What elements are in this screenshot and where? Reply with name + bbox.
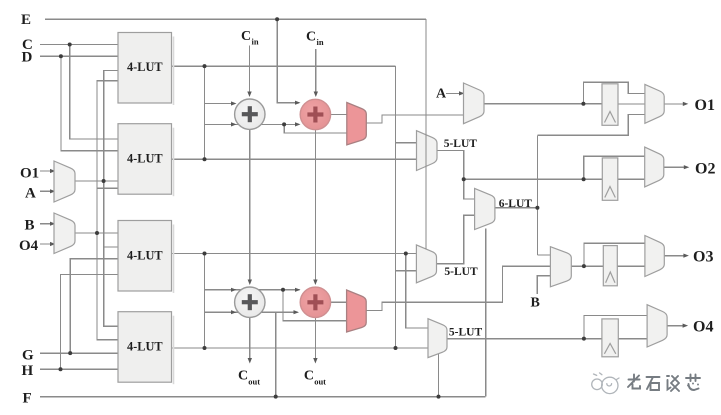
wire Cout2 from adder AD4 [314, 318, 316, 361]
arrow Cin1 down into adder AD1 [247, 92, 251, 98]
svg-text:O4: O4 [693, 319, 713, 336]
junction LUT4 output [203, 346, 207, 350]
wire F riser to 5-LUT mux M5c select [438, 354, 440, 397]
red mux RM1 [347, 103, 367, 145]
svg-text:O1: O1 [695, 97, 715, 114]
junction adder lower line to RM1 bypass [282, 122, 286, 126]
wire FF4 output to mux OM4 [618, 338, 647, 340]
output mux OM4 [647, 305, 667, 347]
wire red mux RM1 output to A-mux lower input [366, 115, 463, 123]
arrow into adder AD2 lower input [295, 122, 301, 126]
wire input B riser to B-mux [537, 276, 550, 294]
arrow carry down into adder AD4 [313, 280, 317, 286]
red mux RM2 [347, 290, 367, 332]
svg-text:B: B [25, 218, 35, 234]
arrow carry down into adder AD3 [248, 280, 252, 286]
svg-text:4-LUT: 4-LUT [127, 249, 163, 263]
junction adder upper line to RM2 bypass [281, 288, 285, 292]
wire upper input line of adders AD3/AD4 [205, 289, 300, 291]
flip-flop FF2 [602, 158, 618, 200]
junction LUT3 line branch down [404, 252, 408, 256]
wire input H into LUT4 [40, 368, 118, 370]
svg-text:O4: O4 [19, 238, 39, 254]
arrow into adder AD1 lower input [231, 122, 237, 126]
wire FF3 output to mux OM3 [617, 265, 645, 267]
junction O4 row bypass [582, 337, 586, 341]
wire carry chain AD2 to AD4 [314, 130, 316, 282]
wire input A to mux ML1 [40, 190, 54, 192]
wire O2 bypass over FF2 to output mux OM2 [584, 156, 645, 179]
wire adder AD4 output to red mux RM2 [331, 301, 347, 303]
junction mux ML2 output on V2 [95, 231, 99, 235]
wire N6 rail to output mux OM1 lower input [537, 114, 645, 135]
wire vertical between LUT1 and LUT2 outputs at x=204.5 [204, 66, 206, 159]
wire mux ML2 output to LUT3 [75, 232, 118, 234]
wire Cout1 from adder AD3 [249, 317, 251, 360]
DOTS_LAYER [59, 17, 586, 398]
arrow input A into A-mux [459, 91, 465, 95]
wire H branch up to LUT3 [61, 275, 119, 370]
svg-text:E: E [21, 12, 31, 28]
wire adder AD2 output to red mux RM1 [331, 114, 347, 116]
svg-text:4-LUT: 4-LUT [127, 340, 163, 354]
svg-text:F: F [23, 391, 32, 407]
wire D branch down to LUT2 [61, 56, 118, 150]
wire input C into LUT1 [40, 44, 118, 46]
svg-text:5-LUT: 5-LUT [449, 327, 483, 339]
svg-text:C: C [304, 369, 314, 384]
wire input O1 to mux ML1 [40, 170, 54, 172]
wire vertical bus V1 (mux ML1 output to LUT1/LUT3/LUT4 inputs) [104, 71, 118, 327]
junction D branch [59, 54, 63, 58]
wire E branch down to adder AD2 upper input [277, 19, 299, 103]
arrow into adder AD3 upper input [231, 288, 237, 292]
arrow into adder AD1 upper input [231, 101, 237, 105]
wire C branch down to LUT2 [70, 45, 118, 140]
5-LUT mux M5a [417, 131, 438, 171]
4-LUT box U2 [118, 124, 174, 197]
wire mux OM2 output O2 [664, 166, 687, 168]
flip-flop FF1 [602, 84, 618, 126]
arrow into adder AD4 lower input [294, 310, 300, 314]
adder AD4 (pink) [300, 287, 330, 317]
wire bypass from node down to red mux RM1 lower input [284, 124, 347, 132]
wire mux M5a output down to 6-LUT mux upper input [437, 150, 475, 199]
5-LUT mux M5b [416, 245, 436, 283]
svg-text:H: H [22, 363, 34, 379]
svg-text:A: A [436, 87, 447, 102]
6-LUT mux M6 [475, 188, 495, 229]
svg-text:A: A [25, 186, 36, 202]
arrow input A into mux ML1 [50, 189, 56, 193]
wire Cin2 arrow line into adder AD2 [315, 49, 317, 95]
svg-text:out: out [314, 377, 326, 387]
junction LUT1 output [203, 64, 207, 68]
wire A-mux output to FF1 [484, 103, 602, 105]
wire LUT3 output to 5-LUT mux M5b upper input [172, 253, 417, 255]
svg-text:O3: O3 [693, 249, 713, 266]
svg-text:O2: O2 [695, 161, 715, 178]
wire O4 bypass over FF4 to output mux OM4 [584, 315, 647, 338]
5-LUT mux M5c [428, 319, 447, 358]
wire E select vertical down through mux M5a to mux M5b [425, 19, 427, 249]
arrow Cout2 down [313, 358, 317, 364]
wire O3 bypass over FF3 to output mux OM3 [584, 243, 645, 266]
mux ML2 (B/O4 input mux) [54, 213, 75, 254]
arrow Cout1 down [248, 358, 252, 364]
watermark text (hand-drawn CJK strokes) [628, 375, 700, 392]
wire LUT2 output to 5-LUT mux M5a lower input [172, 158, 417, 160]
wire mux M5c output to FF4 [447, 338, 602, 340]
wire LUT3 branch down to 5-LUT mux M5c upper input [406, 254, 428, 328]
wire input B to mux ML2 [40, 223, 54, 225]
wire input E horizontal [45, 18, 426, 20]
wire F riser to 6-LUT mux select [485, 229, 487, 397]
wire input O4 to mux ML2 [40, 243, 54, 245]
svg-text:4-LUT: 4-LUT [127, 152, 163, 166]
junction F to mux M5c select [437, 395, 441, 399]
arrow into adder AD4 upper input [295, 288, 301, 292]
junction O3 row bypass [582, 264, 586, 268]
svg-text:C: C [241, 29, 251, 44]
arrow output O3 [683, 254, 689, 258]
mux ML1 (O1/A input mux) [54, 161, 75, 202]
junction F to adder line [274, 395, 278, 399]
ARROWS_LAYER [50, 91, 689, 363]
wire input D into LUT1 [40, 55, 118, 57]
wire 6-LUT mux output to node N6 [495, 207, 538, 209]
wire lower input line of adders AD1/AD2 [205, 123, 300, 125]
wire O2 row feed from node N5a [464, 178, 603, 180]
svg-text:C: C [306, 29, 316, 44]
4-LUT box U4 [118, 312, 174, 385]
wire G branch up to LUT3 [70, 259, 118, 353]
OVERLAY_LAYER [425, 19, 427, 249]
svg-text:B: B [531, 296, 540, 311]
COMPONENTS_LAYER [54, 33, 667, 385]
wire Cin1 arrow line into adder AD1 [249, 46, 251, 95]
wire O1 bypass over FF1 to output mux OM1 [583, 82, 645, 103]
wire input A arrow to A-mux [446, 92, 462, 94]
flip-flop FF4 [602, 319, 618, 357]
arrow output O1 [683, 102, 689, 106]
wire mux M5b output up to 6-LUT mux lower input [437, 215, 475, 264]
junction LUT3 output [203, 252, 207, 256]
svg-text:D: D [22, 50, 33, 66]
arrow input O4 into mux ML2 [50, 242, 56, 246]
arrow Cin2 down into adder AD2 [314, 92, 318, 98]
wire LUT1 output to vertical V395 [172, 65, 396, 67]
wire carry chain AD1 to AD3 [249, 129, 251, 281]
wire vertical V395 LUT1 output feeding 5-LUT muxes [395, 66, 397, 348]
arrow into adder AD2 upper input [295, 101, 301, 105]
adder AD1 (grey) [235, 99, 265, 129]
adder AD3 (grey) [235, 287, 265, 317]
wire F riser to bottom adder input line [275, 312, 277, 396]
wire input F horizontal to 6-LUT select riser [40, 396, 486, 398]
junction node N5a to O2 row [462, 177, 466, 181]
junction C branch [68, 43, 72, 47]
wire V395 branch to mux M5a upper input [396, 142, 417, 144]
junction node N6 [535, 206, 539, 210]
wire upper input of adder AD1 [205, 103, 236, 105]
WATERMARK_LAYER [592, 373, 700, 394]
svg-text:G: G [22, 348, 34, 364]
output mux OM2 [645, 147, 664, 187]
output mux OM1 [645, 84, 664, 123]
flip-flop FF3 [603, 246, 617, 286]
wire V395 branch to mux M5b lower input [396, 270, 417, 272]
wire LUT4 output to 5-LUT mux M5c lower input [172, 347, 429, 349]
wire node N6 vertical rail [536, 135, 538, 255]
arrow into adder AD3 lower input [231, 310, 237, 314]
wire V2 branch to LUT2 [97, 187, 118, 189]
wire FF2 output to mux OM2 [618, 178, 645, 180]
svg-text:6-LUT: 6-LUT [499, 198, 533, 210]
wire mux OM3 output O3 [664, 255, 686, 257]
junction V395 onto LUT4 output line [394, 346, 398, 350]
svg-text:out: out [248, 377, 260, 387]
svg-text:C: C [238, 369, 248, 384]
arrow output O4 [683, 324, 689, 328]
wire V1 branch to LUT3 [104, 246, 118, 248]
wire vertical bus V2 (mux ML2 output to LUT1/LUT2/LUT4 inputs) [97, 81, 118, 340]
wire red mux RM2 output routed to B-mux middle input [366, 266, 550, 310]
wire B-mux output to FF3 [571, 265, 603, 267]
arrow input O1 into mux ML1 [50, 169, 56, 173]
arrow output O2 [684, 165, 690, 169]
wire mux OM1 output O1 [664, 103, 685, 105]
svg-text:in: in [317, 37, 324, 47]
wire lower input line of adders AD3/AD4 [205, 311, 298, 313]
junction O1 row bypass [581, 102, 585, 106]
wire mux ML1 output to LUT2 [75, 180, 118, 182]
watermark logo (stone cartoon) [592, 373, 619, 394]
svg-text:in: in [252, 37, 259, 47]
4-LUT box U3 [118, 221, 174, 294]
svg-text:5-LUT: 5-LUT [444, 138, 478, 150]
output mux OM3 [645, 236, 664, 277]
junction H branch [59, 367, 63, 371]
A-mux MA [464, 83, 485, 124]
wire FF1 output to mux OM1 [618, 103, 645, 105]
arrow input B into mux ML2 [50, 222, 56, 226]
junction E branch to adder AD2 [275, 17, 279, 21]
B-mux MB [550, 247, 571, 287]
4-LUT box U1 [118, 33, 174, 106]
svg-text:5-LUT: 5-LUT [444, 266, 478, 278]
wire mux OM4 output O4 [667, 325, 685, 327]
junction O2 row bypass [582, 177, 586, 181]
junction mux ML1 output on V1 [102, 179, 106, 183]
wire vertical between LUT3 and LUT4 outputs at x=204.5 [204, 254, 206, 349]
junction G branch [68, 351, 72, 355]
adder AD2 (pink) [300, 99, 330, 129]
wire N6 rail to B-mux upper input [537, 254, 550, 256]
junction LUT2 output [203, 157, 207, 161]
svg-text:O1: O1 [20, 166, 39, 182]
wire input G into LUT4 [40, 352, 118, 354]
wire bypass from node down to red mux RM2 lower input [283, 290, 347, 321]
svg-text:4-LUT: 4-LUT [127, 60, 163, 74]
